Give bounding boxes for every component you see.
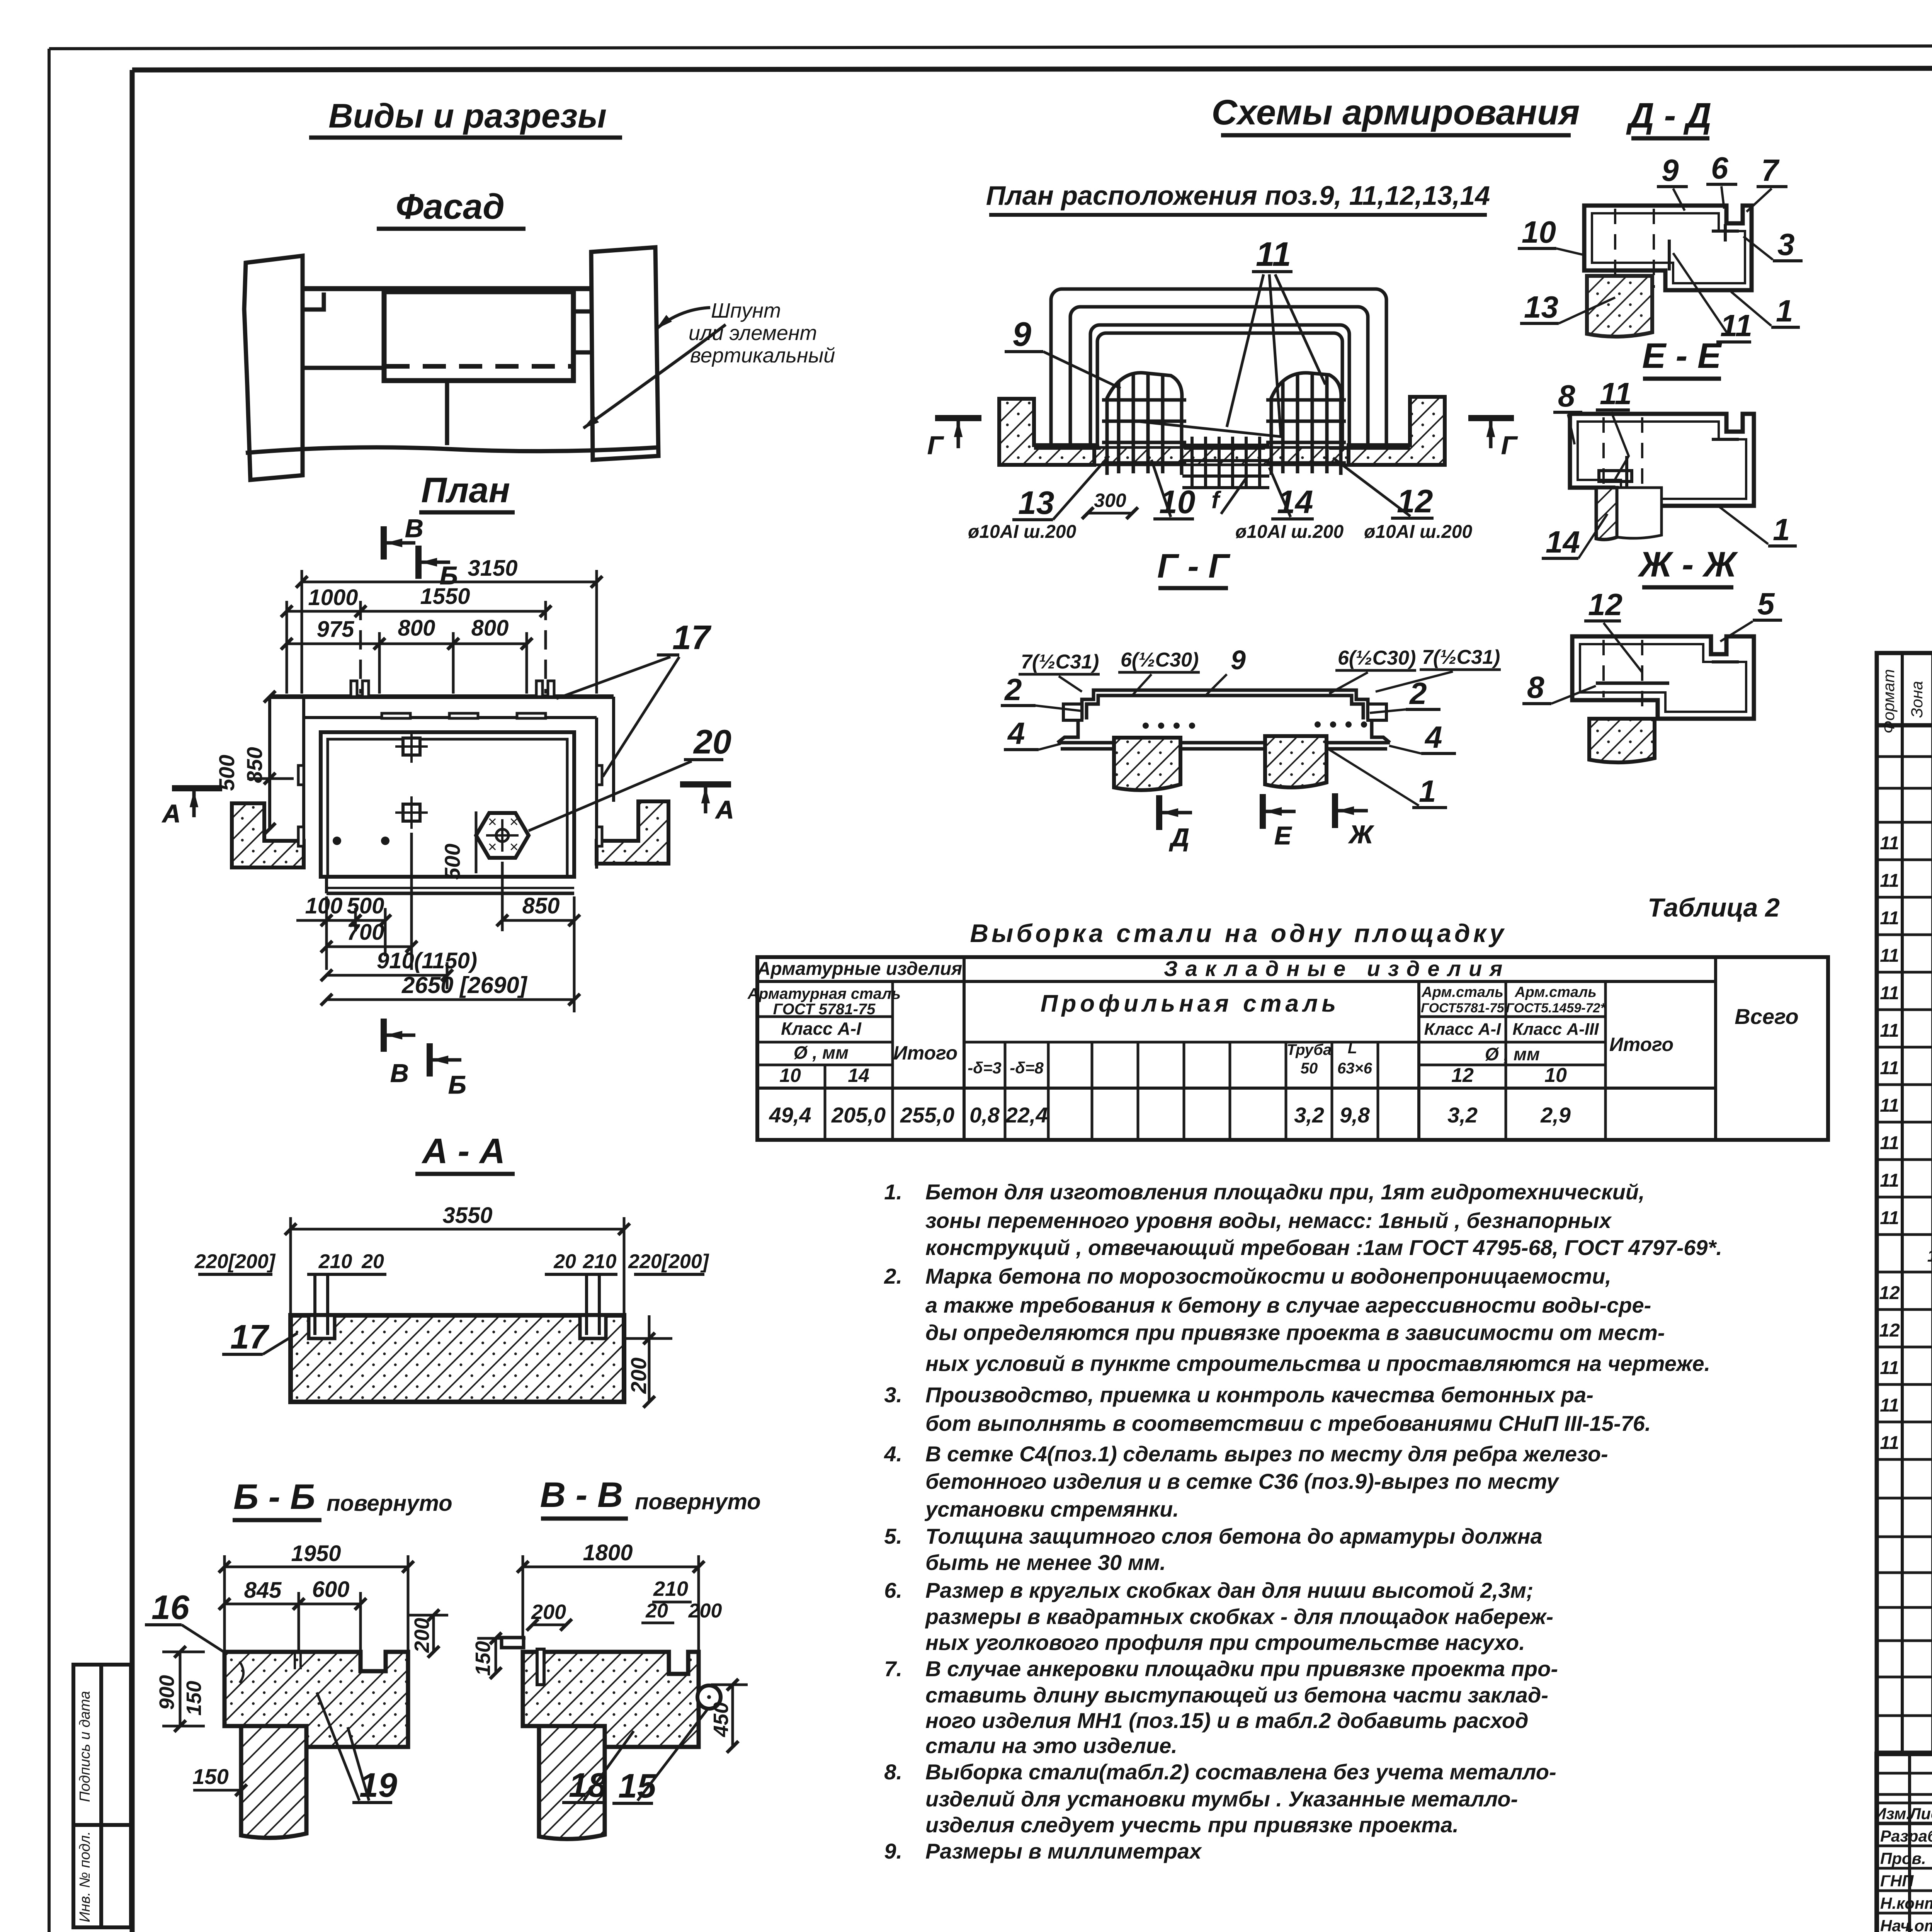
svg-text:700: 700 [347, 920, 384, 945]
svg-text:быть не менее 30 мм.: быть не менее 30 мм. [925, 1550, 1166, 1575]
rebar plan nested mesh outlines [1051, 289, 1386, 462]
svg-text:1: 1 [1776, 294, 1793, 328]
leader Шпунт [583, 308, 726, 428]
svg-text:10: 10 [1522, 215, 1556, 249]
svg-text:11: 11 [1880, 871, 1899, 891]
svg-text:20: 20 [553, 1250, 576, 1273]
svg-text:3,2: 3,2 [1294, 1103, 1324, 1127]
svg-text:210: 210 [583, 1250, 617, 1273]
svg-text:6(½C30): 6(½C30) [1338, 647, 1416, 669]
svg-text:150: 150 [192, 1764, 228, 1789]
svg-text:ставить длину выступающей из б: ставить длину выступающей из бетона част… [925, 1683, 1548, 1707]
svg-text:Итого: Итого [893, 1042, 957, 1064]
svg-text:-δ=3: -δ=3 [968, 1059, 1002, 1077]
svg-text:конструкций , отвечающий требо: конструкций , отвечающий требован :1ам Г… [925, 1235, 1722, 1260]
В-В anchor loop circle right [697, 1685, 721, 1709]
svg-text:800: 800 [398, 616, 435, 641]
svg-text:Размеры в миллиметрах: Размеры в миллиметрах [925, 1839, 1202, 1863]
А-А slot pins [315, 1275, 599, 1335]
svg-text:7(½C31): 7(½C31) [1021, 651, 1099, 673]
Д-Д outline [1584, 206, 1752, 290]
svg-text:Формат: Формат [1879, 669, 1898, 734]
svg-text:11: 11 [1880, 946, 1899, 966]
svg-text:L: L [1348, 1040, 1357, 1057]
В-В dim 1800 [523, 1555, 699, 1652]
svg-text:В: В [405, 514, 423, 543]
svg-text:10: 10 [1544, 1064, 1567, 1087]
facade right pier [591, 247, 658, 460]
svg-text:Г - Г: Г - Г [1157, 547, 1231, 585]
svg-text:210: 210 [318, 1250, 352, 1273]
svg-text:1000: 1000 [308, 585, 358, 610]
svg-text:Н.контр: Н.контр [1880, 1894, 1932, 1912]
svg-text:50: 50 [1301, 1060, 1318, 1077]
svg-text:200: 200 [626, 1357, 651, 1394]
svg-text:12: 12 [1879, 1320, 1900, 1341]
svg-text:200: 200 [688, 1600, 722, 1622]
rebar plan right mesh block [1266, 373, 1346, 475]
plan dim 3150 [302, 570, 597, 694]
svg-text:В случае анкеровки площадки пр: В случае анкеровки площадки при привязке… [925, 1656, 1558, 1681]
svg-text:ного изделия МН1 (поз.15) и в: ного изделия МН1 (поз.15) и в табл.2 доб… [925, 1708, 1529, 1733]
svg-text:Ж: Ж [1348, 820, 1374, 849]
svg-text:14: 14 [848, 1065, 869, 1086]
facade right connect lines [573, 310, 593, 314]
facade drawing [244, 247, 658, 480]
svg-text:11: 11 [1880, 1358, 1899, 1378]
Г-Г right support hatched [1265, 736, 1327, 787]
svg-text:Итого: Итого [1609, 1034, 1673, 1055]
svg-text:Производство, приемка и контро: Производство, приемка и контроль качеств… [925, 1383, 1594, 1407]
А-А dim 3550 [291, 1217, 624, 1315]
svg-text:изделия следует учесть при при: изделия следует учесть при привязке прое… [925, 1813, 1459, 1837]
svg-text:×: × [509, 813, 518, 830]
facade left pier [244, 256, 303, 480]
svg-text:150: 150 [182, 1681, 206, 1716]
svg-text:зоны переменного уровня воды,: зоны переменного уровня воды, немасс: 1в… [925, 1208, 1612, 1233]
Б-Б left vertical dims 900 150 [179, 1652, 182, 1726]
plan hatched wall right [597, 801, 668, 864]
rebar plan Г marker right [1468, 418, 1518, 459]
svg-text:5: 5 [1757, 587, 1775, 621]
svg-text:Таблица 2: Таблица 2 [1648, 893, 1780, 922]
rebar plan left mesh block [1102, 373, 1186, 475]
svg-text:А - А: А - А [422, 1131, 505, 1171]
svg-text:размеры в квадратных скобках -: размеры в квадратных скобках - для площа… [925, 1604, 1553, 1629]
svg-text:Разраб.: Разраб. [1880, 1827, 1932, 1845]
svg-text:205,0: 205,0 [831, 1103, 886, 1127]
svg-text:12-14: 12-14 [1927, 1247, 1932, 1265]
svg-text:49,4: 49,4 [769, 1103, 811, 1127]
plan А-А markers [162, 784, 734, 828]
В-В protruding plate left [502, 1638, 524, 1648]
svg-text:Инв. № подл.: Инв. № подл. [77, 1831, 93, 1922]
spec table row texts [1879, 830, 1932, 1530]
svg-text:ГОСТ5.1459-72*: ГОСТ5.1459-72* [1506, 1001, 1606, 1015]
svg-text:Класс А-III: Класс А-III [1512, 1020, 1599, 1039]
svg-text:ГНП: ГНП [1880, 1872, 1914, 1890]
plan В Б bottom markers [384, 1019, 466, 1099]
svg-text:6.: 6. [884, 1578, 902, 1602]
plan bottom step [325, 877, 328, 893]
Б-Б dim 845 600 [224, 1592, 361, 1652]
svg-text:×: × [509, 838, 518, 855]
svg-text:8: 8 [1527, 670, 1544, 704]
svg-text:11: 11 [1880, 1095, 1899, 1116]
svg-text:11: 11 [1256, 235, 1291, 273]
svg-text:11: 11 [1880, 1170, 1899, 1191]
svg-text:×: × [488, 813, 497, 830]
Б-Б foundation block below [241, 1726, 306, 1838]
svg-text:3.: 3. [884, 1383, 902, 1407]
svg-text:1550: 1550 [420, 584, 470, 609]
svg-text:9: 9 [1662, 153, 1679, 187]
svg-text:Марка бетона по морозостойкост: Марка бетона по морозостойкости и водоне… [925, 1264, 1611, 1288]
svg-text:100: 100 [305, 893, 343, 918]
svg-text:Арм.сталь: Арм.сталь [1421, 984, 1503, 1000]
Г-Г end anchor boxes [1063, 704, 1386, 720]
svg-text:Закладные изделия: Закладные изделия [1164, 956, 1510, 981]
plan inner recess double rectangle [321, 732, 574, 877]
svg-text:2650 [2690]: 2650 [2690] [401, 972, 528, 998]
svg-text:Всего: Всего [1735, 1004, 1798, 1029]
svg-text:11: 11 [1880, 1433, 1899, 1453]
Д-Д hatched concrete [1587, 276, 1652, 337]
rebar plan left concrete angle [999, 399, 1094, 465]
svg-text:845: 845 [244, 1578, 282, 1603]
plan bottom dims [296, 833, 574, 1012]
Г-Г Д Е Ж markers [1159, 793, 1374, 852]
svg-text:9: 9 [1231, 645, 1246, 675]
svg-text:Выборка стали на одну площ: Выборка стали на одну площадку [970, 919, 1507, 947]
svg-text:7: 7 [1761, 153, 1780, 187]
svg-text:20: 20 [693, 723, 731, 761]
svg-text:Класс А-I: Класс А-I [781, 1019, 862, 1039]
А-А dim 200 right [648, 1315, 651, 1402]
svg-text:8: 8 [1558, 379, 1575, 413]
svg-text:×: × [488, 838, 497, 855]
svg-text:3550: 3550 [442, 1203, 492, 1228]
svg-text:В сетке С4(поз.1) сделать выре: В сетке С4(поз.1) сделать вырез по месту… [925, 1442, 1608, 1466]
svg-text:1.: 1. [884, 1180, 902, 1204]
svg-text:6: 6 [1711, 151, 1728, 185]
svg-text:А: А [715, 795, 734, 824]
plan side tabs [298, 765, 602, 846]
Г-Г left support hatched [1114, 738, 1180, 790]
plan hatched wall left [232, 803, 304, 867]
svg-text:5.: 5. [884, 1524, 902, 1548]
svg-text:Ø , мм: Ø , мм [1485, 1044, 1540, 1064]
rebar plan floor lines [1034, 447, 1101, 450]
plan anchor pins top [351, 681, 554, 718]
svg-text:План: План [421, 471, 510, 510]
svg-text:ды определяются при привязке п: ды определяются при привязке проекта в з… [925, 1320, 1665, 1345]
А-А anchor slot left [309, 1315, 335, 1338]
svg-text:Схемы армирования: Схемы армирования [1212, 93, 1580, 132]
svg-text:13: 13 [1524, 290, 1558, 324]
svg-text:Г: Г [927, 431, 944, 459]
svg-text:4: 4 [1424, 720, 1442, 754]
plan section marker В top [384, 514, 423, 560]
svg-text:1: 1 [1773, 512, 1790, 547]
svg-text:7.: 7. [884, 1656, 902, 1681]
facade recess panel [384, 292, 573, 381]
plan small dots row [333, 837, 341, 845]
svg-text:В - В: В - В [540, 1475, 623, 1515]
svg-text:-δ=8: -δ=8 [1010, 1059, 1044, 1077]
svg-text:Труба: Труба [1287, 1041, 1332, 1058]
svg-text:500: 500 [440, 844, 464, 879]
svg-text:Профильная сталь: Профильная сталь [1041, 990, 1340, 1017]
svg-text:ГОСТ 5781-75: ГОСТ 5781-75 [773, 1001, 876, 1018]
svg-text:150: 150 [471, 1641, 495, 1676]
Б-Б rebar marks in top [240, 1652, 301, 1683]
svg-text:910(1150): 910(1150) [377, 948, 477, 973]
Ж-Ж outline [1572, 636, 1754, 719]
svg-text:11: 11 [1880, 983, 1899, 1003]
svg-text:0,8: 0,8 [969, 1103, 1000, 1127]
svg-text:13: 13 [1018, 485, 1054, 521]
plan small anchor squares [395, 730, 428, 829]
svg-text:А: А [162, 799, 181, 828]
svg-text:ных условий в пункте строитель: ных условий в пункте строительства и про… [925, 1351, 1710, 1376]
svg-text:Зона: Зона [1908, 681, 1926, 718]
svg-text:Д: Д [1169, 823, 1189, 852]
svg-text:11: 11 [1880, 833, 1899, 854]
svg-text:Нач.отд.: Нач.отд. [1880, 1917, 1932, 1932]
svg-text:14: 14 [1546, 525, 1580, 559]
svg-text:1950: 1950 [291, 1541, 341, 1566]
svg-text:255,0: 255,0 [900, 1103, 954, 1127]
svg-text:ø10АI ш.200: ø10АI ш.200 [1364, 522, 1472, 542]
facade slab top line [303, 286, 593, 291]
svg-text:Д - Д: Д - Д [1626, 96, 1712, 135]
svg-text:Ж - Ж: Ж - Ж [1638, 545, 1738, 584]
svg-text:Размер в круглых скобках дан д: Размер в круглых скобках дан для ниши вы… [925, 1578, 1534, 1602]
В-В dim 450 rotated right [731, 1685, 734, 1747]
svg-text:План расположения поз.9, 11,12: План расположения поз.9, 11,12,13,14 [986, 180, 1490, 211]
left margin stamp boxes [73, 1665, 131, 1927]
svg-text:ных уголкового профиля при стр: ных уголкового профиля при строительстве… [925, 1630, 1525, 1655]
svg-text:17: 17 [672, 618, 712, 656]
svg-text:850: 850 [522, 893, 560, 918]
svg-text:11: 11 [1880, 908, 1899, 929]
svg-text:12: 12 [1451, 1064, 1474, 1087]
svg-text:1: 1 [1419, 774, 1436, 808]
svg-text:600: 600 [312, 1577, 350, 1602]
svg-text:В: В [390, 1059, 409, 1087]
svg-text:18: 18 [569, 1766, 607, 1804]
plan dim 975 800 800 [287, 632, 527, 694]
svg-text:Арматурные изделия: Арматурные изделия [757, 959, 963, 979]
svg-text:14: 14 [1277, 484, 1313, 520]
svg-text:12: 12 [1588, 587, 1622, 622]
svg-text:12: 12 [1879, 1283, 1900, 1303]
rebar plan centre small grid [1182, 437, 1269, 488]
svg-text:11: 11 [1880, 1058, 1899, 1078]
rebar plan floor hatched strip [1034, 447, 1410, 465]
svg-text:2: 2 [1409, 676, 1427, 711]
facade notch top-left [303, 293, 324, 310]
svg-text:Подпись и дата: Подпись и дата [77, 1691, 93, 1802]
svg-text:Выборка стали(табл.2) составле: Выборка стали(табл.2) составлена без уче… [925, 1760, 1556, 1784]
svg-text:12: 12 [1397, 483, 1433, 519]
svg-text:450: 450 [709, 1702, 733, 1737]
svg-text:220[200]: 220[200] [194, 1250, 276, 1273]
svg-text:20: 20 [645, 1600, 668, 1622]
svg-text:500: 500 [347, 893, 384, 918]
svg-text:повернуто: повернуто [635, 1489, 761, 1514]
svg-text:ГОСТ5781-75: ГОСТ5781-75 [1421, 1001, 1505, 1015]
svg-text:Е: Е [1274, 821, 1292, 850]
svg-text:вертикальный: вертикальный [690, 344, 835, 367]
Ж-Ж hatched concrete below [1589, 719, 1655, 762]
svg-text:Ø , мм: Ø , мм [794, 1043, 849, 1063]
svg-text:бот выполнять в соответствии с: бот выполнять в соответствии с требовани… [925, 1411, 1651, 1435]
facade line left mid [303, 366, 384, 370]
svg-text:63×6: 63×6 [1337, 1060, 1372, 1077]
В-В main hatched body [523, 1652, 699, 1747]
svg-text:Бетон для изготовления площадк: Бетон для изготовления площадки при, 1ят… [925, 1180, 1645, 1204]
svg-text:бетонного изделия и в сетке С3: бетонного изделия и в сетке С36 (поз.9)-… [925, 1469, 1560, 1493]
svg-text:Пров.: Пров. [1880, 1849, 1926, 1867]
facade dashed line [386, 364, 572, 369]
svg-text:Толщина защитного слоя бетона: Толщина защитного слоя бетона до арматур… [925, 1524, 1543, 1548]
svg-text:Арматурная сталь: Арматурная сталь [747, 985, 901, 1002]
plan hex bollard base [476, 813, 529, 858]
svg-text:Г: Г [1501, 431, 1518, 459]
svg-text:11: 11 [1880, 1395, 1899, 1416]
svg-text:Б: Б [448, 1070, 466, 1099]
svg-text:Класс А-I: Класс А-I [1424, 1020, 1501, 1039]
Б-Б main hatched body [224, 1652, 408, 1747]
plan dim 1000 1550 [287, 601, 546, 694]
svg-text:Фасад: Фасад [396, 187, 505, 226]
svg-text:установки стремянки.: установки стремянки. [924, 1497, 1179, 1521]
svg-text:Е - Е: Е - Е [1642, 336, 1722, 376]
svg-text:7(½C31): 7(½C31) [1422, 646, 1500, 668]
В-В foundation block below [539, 1726, 605, 1839]
Е-Е outline [1570, 414, 1754, 506]
svg-text:9,8: 9,8 [1340, 1103, 1370, 1127]
signature sub-table [1908, 1754, 1911, 1932]
svg-text:3150: 3150 [468, 556, 517, 581]
svg-text:Лист: Лист [1908, 1804, 1932, 1823]
svg-text:220[200]: 220[200] [628, 1250, 709, 1273]
plan section marker Б top [418, 546, 458, 590]
svg-text:4: 4 [1007, 716, 1025, 750]
svg-text:6(½C30): 6(½C30) [1121, 649, 1199, 671]
svg-text:1800: 1800 [583, 1540, 633, 1565]
svg-text:10: 10 [779, 1065, 801, 1086]
Б-Б dim 1950 [224, 1555, 408, 1652]
svg-text:16: 16 [151, 1588, 190, 1626]
Б-Б bottom dim 150 [193, 1789, 241, 1792]
svg-text:Арм.сталь: Арм.сталь [1514, 984, 1597, 1000]
svg-text:Виды и разрезы: Виды и разрезы [328, 97, 607, 135]
svg-text:11: 11 [1880, 1020, 1899, 1041]
svg-text:9.: 9. [884, 1839, 902, 1863]
svg-text:300: 300 [1094, 490, 1126, 511]
svg-text:ø10АI ш.200: ø10АI ш.200 [968, 522, 1076, 542]
svg-text:или элемент: или элемент [689, 321, 817, 345]
svg-text:Б - Б: Б - Б [233, 1477, 315, 1517]
rebar plan right concrete angle [1349, 397, 1445, 465]
svg-text:975: 975 [317, 617, 355, 642]
svg-text:2,9: 2,9 [1540, 1103, 1571, 1127]
svg-text:200: 200 [410, 1618, 434, 1653]
svg-text:210: 210 [653, 1577, 688, 1600]
svg-text:2: 2 [1004, 672, 1022, 707]
В-В dim 150 rotated left [495, 1638, 497, 1673]
svg-text:11: 11 [1880, 1208, 1899, 1228]
svg-text:Шпунт: Шпунт [711, 299, 781, 322]
Е-Е hatched strip [1596, 488, 1617, 539]
А-А anchor slot right [580, 1315, 606, 1338]
А-А slab hatched [291, 1315, 624, 1402]
svg-text:3,2: 3,2 [1447, 1103, 1478, 1127]
svg-text:900: 900 [155, 1675, 179, 1710]
svg-text:стали на это изделие.: стали на это изделие. [925, 1733, 1177, 1758]
svg-text:а также требования к бетону в: а также требования к бетону в случае агр… [925, 1293, 1651, 1317]
svg-text:11: 11 [1720, 308, 1752, 343]
facade centre vertical [445, 381, 449, 445]
svg-text:11: 11 [1600, 376, 1632, 411]
svg-text:4.: 4. [884, 1442, 902, 1466]
Б-Б dim 200 rotated [432, 1615, 435, 1652]
svg-text:2.: 2. [884, 1264, 902, 1288]
svg-text:Изм.: Изм. [1874, 1804, 1911, 1823]
rebar plan Г marker left [927, 418, 981, 459]
Г-Г dots rows [1143, 721, 1367, 729]
facade ground wavy line [246, 447, 657, 453]
svg-text:20: 20 [361, 1250, 384, 1273]
svg-text:500: 500 [214, 755, 239, 791]
plan platform outline [270, 697, 614, 893]
svg-text:8.: 8. [884, 1760, 902, 1784]
svg-text:изделий для установки тумбы .: изделий для установки тумбы . Указанные … [925, 1787, 1518, 1811]
svg-text:17: 17 [230, 1318, 270, 1356]
svg-text:22,4: 22,4 [1005, 1103, 1048, 1127]
svg-text:ø10АI ш.200: ø10АI ш.200 [1235, 522, 1344, 542]
svg-text:3: 3 [1777, 227, 1795, 262]
Г-Г beam profile [1058, 690, 1390, 749]
svg-text:800: 800 [471, 616, 509, 641]
svg-text:11: 11 [1880, 1133, 1899, 1153]
svg-text:повернуто: повернуто [327, 1491, 452, 1516]
svg-text:9: 9 [1012, 315, 1031, 353]
